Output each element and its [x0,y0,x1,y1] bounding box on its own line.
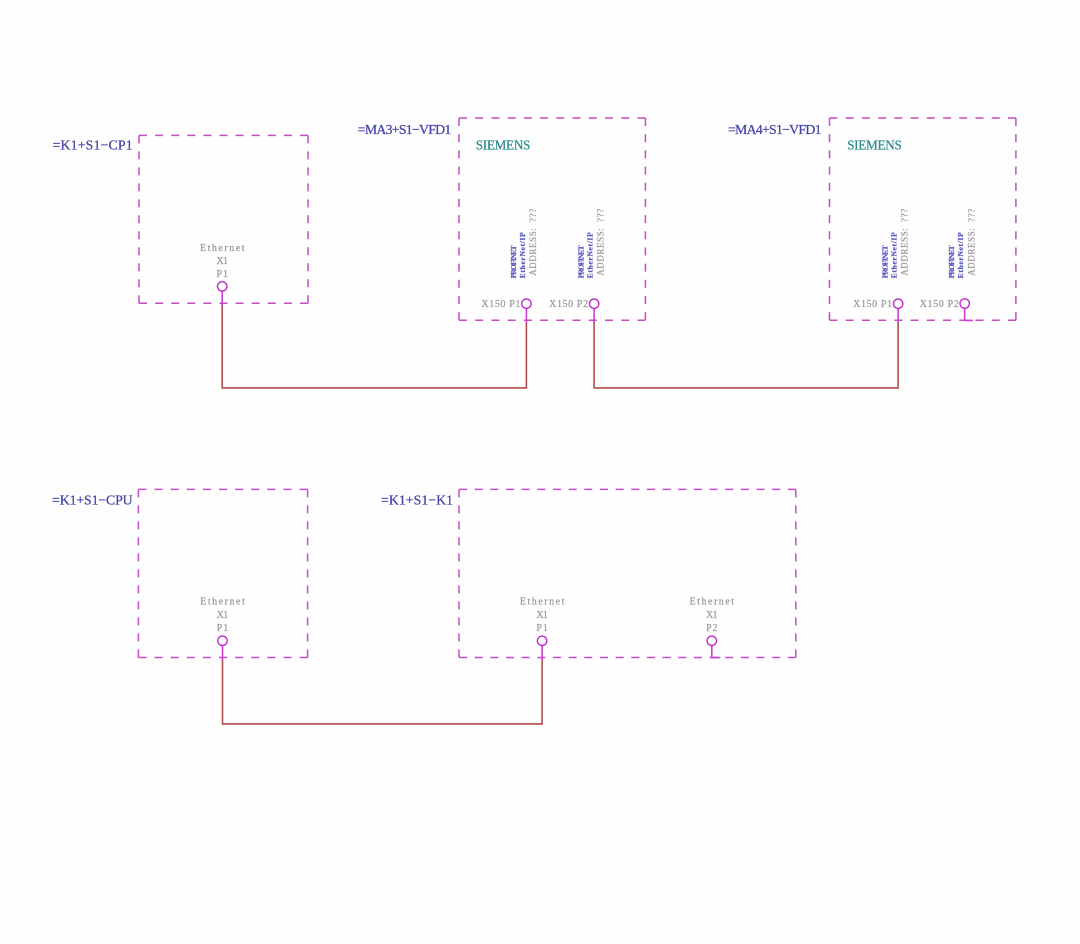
svg-text:=MA4+S1−VFD1: =MA4+S1−VFD1 [728,122,822,137]
device box =K1+S1-CPU [138,489,307,657]
svg-text:X1: X1 [217,610,229,621]
port CP1 X1:P1 [218,282,227,291]
svg-text:SIEMENS: SIEMENS [476,138,531,153]
svg-text:X150 P1: X150 P1 [853,299,892,310]
svg-text:X1: X1 [536,610,548,621]
rotated labels PROFINET EtherNet/IP ADDRESS (MA3 P1) [509,209,538,279]
device box =MA3+S1-VFD1 [459,118,645,320]
port text Ethernet X1 P1 (CPU) [200,597,245,635]
stub CPU P1 [222,646,224,661]
svg-text:PROFINET: PROFINET [881,245,890,278]
svg-text:=MA3+S1−VFD1: =MA3+S1−VFD1 [358,122,452,137]
svg-text:X1: X1 [216,256,228,267]
stub K1 P2 (unconnected) [712,646,721,658]
svg-text:X1: X1 [706,610,718,621]
svg-text:=K1+S1−CP1: =K1+S1−CP1 [53,138,133,153]
wire CP1:P1 to MA3:X150P1 [222,305,526,388]
port K1 X1:P2 [707,636,716,645]
svg-text:P1: P1 [217,623,229,634]
svg-text:=K1+S1−K1: =K1+S1−K1 [381,493,453,508]
svg-text:EtherNet/IP: EtherNet/IP [890,232,899,278]
svg-text:EtherNet/IP: EtherNet/IP [586,232,595,278]
svg-text:SIEMENS: SIEMENS [847,138,902,153]
rotated labels PROFINET EtherNet/IP ADDRESS (MA3 P2) [577,209,606,279]
port MA3 X150:P1 [522,299,531,308]
svg-text:ADDRESS: ???: ADDRESS: ??? [596,209,606,276]
wire MA3:X150P2 to MA4:X150P1 [594,322,898,388]
stub MA3 P1 [525,308,527,322]
svg-text:PROFINET: PROFINET [577,245,586,278]
port text Ethernet X1 P2 (K1) [690,597,735,635]
port MA4 X150:P1 [893,299,902,308]
device box =K1+S1-CP1 [139,135,308,303]
wire CPU:P1 to K1:P1 [223,659,543,724]
device box =K1+S1-K1 [459,489,796,657]
svg-text:Ethernet: Ethernet [520,597,565,608]
rotated labels PROFINET EtherNet/IP ADDRESS (MA4 P2) [947,209,976,279]
svg-text:ADDRESS: ???: ADDRESS: ??? [900,209,910,276]
port MA3 X150:P2 [589,299,598,308]
svg-text:X150 P2: X150 P2 [920,299,959,310]
svg-text:=K1+S1−CPU: =K1+S1−CPU [52,493,133,508]
stub MA4 P2 (unconnected) [965,308,973,320]
port K1 X1:P1 [537,636,546,645]
stub MA4 P1 [897,308,899,322]
svg-text:PROFINET: PROFINET [509,245,518,278]
device box =MA4+S1-VFD1 [830,118,1016,320]
rotated labels PROFINET EtherNet/IP ADDRESS (MA4 P1) [881,209,910,279]
svg-text:X150 P1: X150 P1 [481,299,520,310]
svg-text:X150 P2: X150 P2 [549,299,588,310]
port CPU X1:P1 [218,636,227,645]
svg-text:P2: P2 [706,623,718,634]
port MA4 X150:P2 [960,299,969,308]
stub CP1 P1 [221,291,223,306]
svg-text:P1: P1 [536,623,548,634]
svg-text:ADDRESS: ???: ADDRESS: ??? [966,209,976,276]
port text Ethernet X1 P1 (K1) [520,597,565,635]
stub K1 P1 [541,646,543,661]
svg-text:P1: P1 [216,269,228,280]
svg-text:EtherNet/IP: EtherNet/IP [956,232,965,278]
port text Ethernet X1 P1 (CP1) [200,243,245,280]
svg-text:EtherNet/IP: EtherNet/IP [518,232,527,278]
svg-text:PROFINET: PROFINET [947,245,956,278]
svg-text:Ethernet: Ethernet [200,597,245,608]
svg-text:Ethernet: Ethernet [690,597,735,608]
stub MA3 P2 [593,308,595,322]
svg-text:Ethernet: Ethernet [200,243,245,254]
svg-text:ADDRESS: ???: ADDRESS: ??? [528,209,538,276]
